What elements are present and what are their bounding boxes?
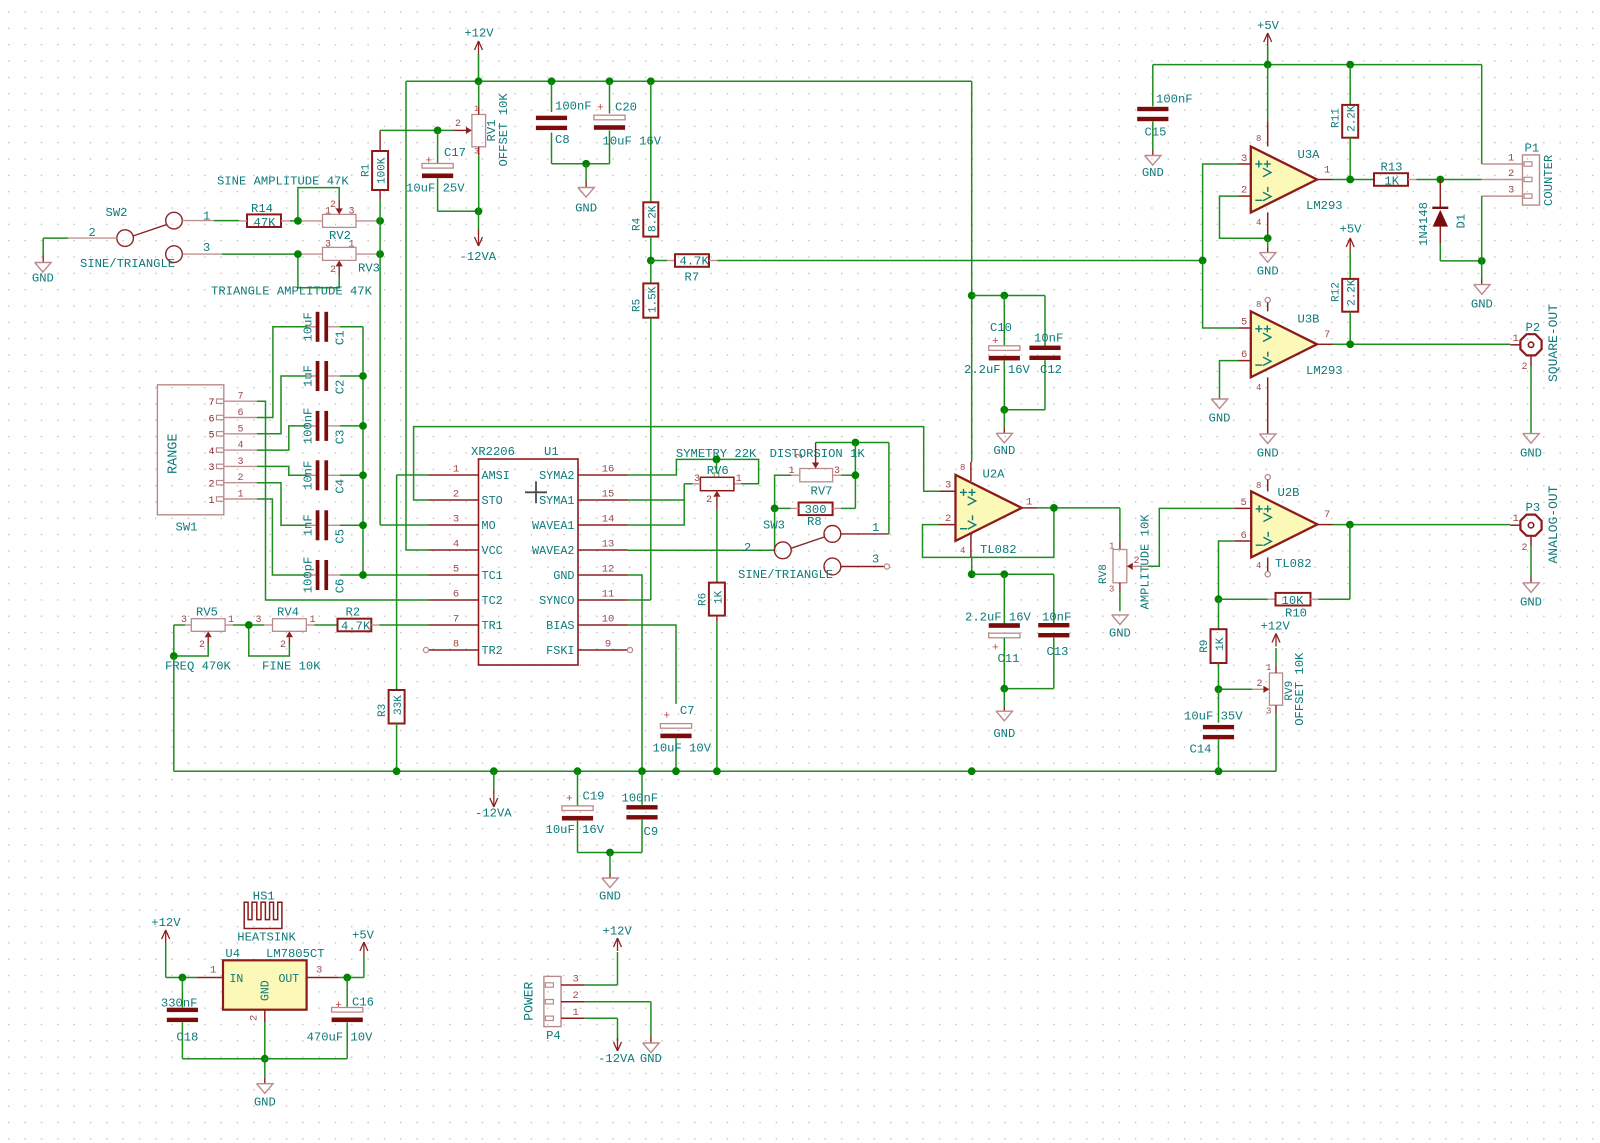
svg-text:11: 11 — [602, 589, 615, 601]
svg-text:330nF: 330nF — [161, 997, 198, 1011]
svg-text:16: 16 — [602, 464, 615, 476]
svg-text:OFFSET 10K: OFFSET 10K — [497, 93, 511, 167]
wire U2B pin6 feedback — [1219, 541, 1252, 599]
op-amp U2A TL082 — [945, 463, 1032, 557]
op-amp U3B LM293 — [1241, 300, 1343, 393]
svg-text:1: 1 — [1109, 542, 1114, 552]
svg-text:C18: C18 — [176, 1031, 198, 1045]
svg-text:RV6: RV6 — [707, 464, 729, 478]
wire U2A V+ pin8 — [970, 296, 973, 482]
svg-text:U1: U1 — [544, 445, 559, 459]
svg-text:DISTORSION 1K: DISTORSION 1K — [770, 447, 866, 461]
svg-text:GND: GND — [640, 1052, 662, 1066]
wire R1 to MO bus — [379, 199, 381, 525]
label TRIANGLE AMPLITUDE 47K — [211, 285, 373, 299]
svg-text:+5V: +5V — [352, 929, 375, 943]
svg-text:10uF 35V: 10uF 35V — [1184, 710, 1243, 724]
svg-text:TL082: TL082 — [980, 543, 1017, 557]
svg-text:7: 7 — [1324, 329, 1330, 341]
svg-text:GND: GND — [1257, 265, 1279, 279]
resistor R6 1K — [697, 583, 725, 772]
capacitor C3 100nF — [302, 408, 364, 445]
svg-text:8: 8 — [453, 639, 459, 651]
svg-text:8: 8 — [1256, 481, 1261, 491]
symbol anchor cross — [525, 481, 547, 503]
capacitor C19 10uF 16V — [546, 771, 611, 852]
svg-text:1: 1 — [1508, 153, 1514, 165]
potentiometer RV4 FINE — [249, 606, 338, 657]
svg-text:+12V: +12V — [1261, 620, 1291, 634]
power +5V at U4 — [352, 929, 375, 978]
junction U3B out/R12 — [1346, 340, 1354, 348]
svg-text:C9: C9 — [644, 825, 659, 839]
svg-text:R2: R2 — [346, 606, 361, 620]
svg-text:STO: STO — [482, 494, 503, 508]
junction U4 in/C18 — [179, 974, 187, 982]
svg-text:3: 3 — [316, 965, 322, 977]
junction -12VA bus — [490, 767, 498, 775]
svg-text:33K: 33K — [393, 695, 405, 715]
junction rail/R4 — [647, 77, 655, 85]
potentiometer RV9 OFFSET 10K — [1219, 648, 1308, 771]
junction rail/C8 — [548, 77, 556, 85]
capacitor C11 2.2uF 16V — [965, 574, 1032, 688]
svg-text:R7: R7 — [685, 271, 700, 285]
svg-text:GND: GND — [1520, 596, 1542, 610]
wire cap bus — [362, 327, 364, 575]
junction R9/R10 — [1215, 595, 1223, 603]
svg-text:GND: GND — [260, 980, 273, 1001]
svg-text:5: 5 — [208, 431, 214, 442]
svg-text:C8: C8 — [555, 133, 570, 147]
svg-text:GND: GND — [1142, 166, 1164, 180]
wire SW1 pin4 to C3 — [257, 426, 316, 450]
wire U2A output — [1022, 507, 1120, 509]
wire P1 pin3 down — [1481, 196, 1483, 261]
junction C10/C12 gnd — [1000, 406, 1008, 414]
wire U3A pin2 to gnd — [1220, 196, 1268, 238]
wire U4 GND pin2 — [264, 1010, 266, 1059]
wire U2B pin5 — [1234, 507, 1251, 509]
svg-text:GND: GND — [1471, 298, 1493, 312]
junction x971 C10 — [968, 292, 976, 300]
wire U3A pin8 — [1267, 65, 1269, 147]
svg-text:R14: R14 — [251, 202, 273, 216]
junction U2B out — [1346, 521, 1354, 529]
wire U3A pin3 — [1203, 164, 1251, 261]
wire WAVEA1 — [628, 484, 685, 525]
junction -12VA bus — [393, 767, 401, 775]
svg-text:5: 5 — [238, 424, 244, 435]
resistor R8 300 — [775, 503, 856, 529]
svg-text:4: 4 — [208, 447, 214, 458]
svg-text:10nF: 10nF — [1042, 611, 1071, 625]
svg-text:2: 2 — [1522, 362, 1528, 373]
svg-text:LM293: LM293 — [1306, 199, 1343, 213]
svg-text:+: + — [664, 711, 671, 723]
svg-text:AMPLITUDE 10K: AMPLITUDE 10K — [1138, 514, 1152, 610]
no-connect U3B pin8 — [1265, 297, 1270, 311]
wire R5 to SYNCO — [628, 318, 651, 600]
svg-text:8: 8 — [1256, 134, 1261, 144]
ground at SW2 — [32, 263, 54, 286]
junction SW2/RV3 — [294, 250, 302, 258]
svg-text:+5V: +5V — [1340, 223, 1363, 237]
svg-text:2: 2 — [945, 513, 951, 525]
wire SW1 pin2 to C5 — [257, 483, 316, 526]
ground C11/C13 — [993, 689, 1015, 741]
svg-text:2.2K: 2.2K — [1347, 279, 1359, 306]
wire RV8 wiper to U2B pin5 — [1148, 508, 1234, 566]
svg-text:GND: GND — [1109, 627, 1131, 641]
svg-text:TR2: TR2 — [482, 644, 503, 658]
svg-text:4: 4 — [453, 539, 459, 551]
svg-text:-12VA: -12VA — [475, 807, 512, 821]
svg-text:SQUARE-OUT: SQUARE-OUT — [1546, 304, 1561, 382]
no-connect U2B pin8 — [1265, 475, 1270, 492]
junction C11/C13 gnd — [1000, 685, 1008, 693]
svg-text:-12VA: -12VA — [598, 1052, 635, 1066]
svg-text:13: 13 — [602, 539, 615, 551]
wire SW1 pin3 to C4 — [257, 466, 316, 475]
wire U2A V- pin4 — [970, 534, 973, 574]
junction +12V/RV1 — [475, 77, 483, 85]
svg-text:3: 3 — [1109, 585, 1114, 595]
wire SW3 pin3 nc — [841, 564, 890, 569]
svg-text:2.2uF 16V: 2.2uF 16V — [964, 363, 1031, 377]
wire +5V rail — [1153, 65, 1482, 164]
junction R8 left — [771, 505, 779, 513]
wire U2A pin2 feedback — [923, 508, 1054, 558]
potentiometer RV3 — [298, 240, 380, 288]
junction R4/R7/R5 — [647, 257, 655, 265]
svg-text:SYNCO: SYNCO — [539, 594, 574, 608]
wire U3B pin4 gnd — [1257, 377, 1279, 460]
capacitor C6 100pF — [302, 557, 429, 594]
resistor R7 4.7K — [651, 254, 718, 284]
wire U4 IN — [197, 977, 223, 979]
svg-text:SINE/TRIANGLE: SINE/TRIANGLE — [738, 568, 833, 582]
svg-text:4.7K: 4.7K — [341, 620, 371, 634]
svg-text:2: 2 — [238, 473, 244, 484]
svg-text:2: 2 — [573, 990, 579, 1002]
ground bottom center — [599, 853, 621, 904]
svg-text:3: 3 — [208, 463, 214, 474]
resistor R9 1K — [1199, 599, 1227, 689]
capacitor C4 10nF — [302, 460, 364, 493]
junction C19/C9 — [606, 849, 614, 857]
svg-text:U3B: U3B — [1298, 313, 1320, 327]
svg-text:7: 7 — [1324, 509, 1330, 521]
op-amp U2B TL082 — [1241, 481, 1331, 571]
svg-text:3: 3 — [1241, 153, 1247, 165]
op-amp U3A LM293 — [1241, 134, 1343, 228]
svg-text:1K: 1K — [713, 590, 725, 604]
svg-text:D1: D1 — [1454, 214, 1468, 229]
svg-text:1: 1 — [203, 210, 210, 224]
ground D1 — [1471, 261, 1493, 312]
svg-text:6: 6 — [453, 589, 459, 601]
junction -12VA bus — [672, 767, 680, 775]
wire U3B pin5 — [1203, 261, 1251, 329]
svg-text:C2: C2 — [334, 380, 348, 395]
wire +12V rail — [406, 80, 972, 82]
svg-text:7: 7 — [238, 392, 244, 403]
resistor R1 100K — [360, 130, 388, 199]
svg-text:GND: GND — [1209, 412, 1231, 426]
svg-text:XR2206: XR2206 — [471, 445, 515, 459]
svg-text:+: + — [597, 103, 604, 115]
junction R9/C14/RV9 — [1215, 685, 1223, 693]
resistor R2 4.7K — [338, 606, 380, 634]
svg-text:RV4: RV4 — [277, 606, 299, 620]
wire P2 pin2 gnd — [1520, 355, 1542, 460]
wire U3A pin4 — [1267, 212, 1269, 238]
wire U4 OUT — [307, 977, 364, 979]
svg-text:3: 3 — [181, 615, 187, 626]
svg-text:2: 2 — [280, 640, 286, 651]
svg-text:SINE/TRIANGLE: SINE/TRIANGLE — [80, 257, 175, 271]
svg-text:SW2: SW2 — [106, 206, 128, 220]
wire C10/C12 top — [972, 295, 1045, 297]
junction RV2 pin3 — [376, 217, 384, 225]
svg-text:14: 14 — [602, 514, 615, 526]
regulator U4 LM7805CT — [210, 947, 325, 1021]
svg-text:5: 5 — [1241, 317, 1247, 329]
junction x971 C11 — [968, 570, 976, 578]
wire U2A pin3 — [939, 490, 955, 492]
junction -12VA bus — [574, 767, 582, 775]
svg-text:4: 4 — [960, 546, 965, 556]
junction C8/C20 gnd — [582, 160, 590, 168]
svg-text:+: + — [566, 794, 573, 806]
junction -12VA bus — [638, 767, 646, 775]
svg-text:+: + — [426, 156, 433, 168]
junction R7/U3A/U3B — [1199, 257, 1207, 265]
svg-text:10uF 16V: 10uF 16V — [546, 823, 605, 837]
resistor R10 10K — [1219, 525, 1350, 621]
capacitor C16 470uF 10V — [265, 978, 374, 1059]
capacitor C10 2.2uF 16V — [964, 296, 1031, 410]
svg-text:1: 1 — [573, 1007, 579, 1019]
wire SYMA2 loop — [628, 459, 759, 483]
svg-text:3: 3 — [256, 615, 262, 626]
svg-text:+5V: +5V — [1257, 19, 1280, 33]
wire SW2 pin2 to GND — [43, 238, 117, 262]
svg-text:WAVEA2: WAVEA2 — [532, 544, 574, 558]
wire P4 pin2 gnd — [585, 1002, 662, 1066]
resistor R5 1.5K — [632, 261, 660, 318]
svg-text:4: 4 — [1256, 218, 1261, 228]
svg-text:2: 2 — [330, 200, 336, 211]
resistor R13 1K — [1374, 161, 1482, 189]
svg-text:R5: R5 — [632, 299, 644, 312]
svg-text:HS1: HS1 — [253, 890, 275, 904]
svg-text:C1: C1 — [334, 330, 348, 345]
svg-text:1: 1 — [238, 490, 244, 501]
label FINE 10K — [262, 660, 321, 674]
svg-text:2: 2 — [199, 640, 205, 651]
wire SW1 pin1 to C6 — [257, 499, 316, 575]
svg-text:1: 1 — [1324, 165, 1330, 177]
svg-text:FREQ 470K: FREQ 470K — [165, 660, 232, 674]
svg-text:10uF 10V: 10uF 10V — [653, 742, 712, 756]
svg-text:5: 5 — [1241, 497, 1247, 509]
svg-text:RV7: RV7 — [811, 485, 833, 499]
svg-text:TRIANGLE AMPLITUDE 47K: TRIANGLE AMPLITUDE 47K — [211, 285, 373, 299]
svg-text:2: 2 — [1257, 679, 1263, 690]
power +12V at RV9 — [1261, 620, 1291, 647]
wire R8 to WAVEA2 — [774, 508, 776, 550]
svg-text:2: 2 — [330, 265, 336, 276]
wire U2B output — [1317, 524, 1510, 526]
no-connect FSKI pin9 — [627, 647, 632, 652]
svg-text:2: 2 — [795, 453, 806, 459]
wire +12V to U2A — [971, 81, 973, 295]
svg-text:SINE AMPLITUDE 47K: SINE AMPLITUDE 47K — [217, 175, 349, 189]
svg-text:OFFSET 10K: OFFSET 10K — [1293, 652, 1307, 726]
svg-text:1: 1 — [349, 240, 355, 251]
svg-text:8: 8 — [1256, 300, 1261, 310]
no-connect U2B pin4 — [1265, 557, 1270, 576]
ground U3A — [1257, 238, 1279, 278]
svg-text:C19: C19 — [583, 790, 605, 804]
svg-text:6: 6 — [238, 408, 244, 419]
junction +5V/R11 — [1346, 61, 1354, 69]
junction -12VA bus — [1215, 767, 1223, 775]
svg-text:C16: C16 — [352, 996, 374, 1010]
wire SYMA1 — [628, 499, 685, 501]
wire SW3 pin1 up — [841, 443, 889, 534]
potentiometer RV7 — [789, 443, 841, 499]
wire -12VA bus — [174, 770, 1276, 772]
svg-text:2.2uF 16V: 2.2uF 16V — [965, 611, 1032, 625]
svg-text:RV3: RV3 — [358, 262, 380, 276]
svg-text:100nF: 100nF — [622, 792, 659, 806]
svg-text:C6: C6 — [334, 579, 348, 594]
capacitor C17 10uF 25V — [406, 130, 479, 211]
svg-text:POWER: POWER — [521, 981, 536, 1020]
capacitor C7 10uF 10V — [653, 704, 712, 771]
svg-text:7: 7 — [453, 614, 459, 626]
junction -12VA bus — [968, 767, 976, 775]
svg-text:100K: 100K — [377, 157, 389, 184]
svg-text:GND: GND — [575, 202, 597, 216]
svg-text:1.5K: 1.5K — [647, 286, 659, 313]
wire SW2 pin3 to RV3 — [183, 253, 298, 255]
svg-text:R12: R12 — [1331, 282, 1343, 302]
ground U4 — [254, 1059, 276, 1110]
svg-text:C4: C4 — [334, 479, 348, 494]
svg-text:COUNTER: COUNTER — [1542, 155, 1556, 206]
svg-text:1: 1 — [1513, 333, 1519, 345]
svg-text:10nF: 10nF — [302, 461, 316, 490]
power -12VA below RV1 — [460, 233, 497, 264]
svg-text:1: 1 — [453, 464, 459, 476]
svg-text:+12V: +12V — [603, 925, 633, 939]
power +5V top — [1257, 19, 1280, 65]
svg-text:3: 3 — [349, 207, 355, 218]
svg-text:GND: GND — [993, 727, 1015, 741]
svg-text:SYMA2: SYMA2 — [539, 469, 574, 483]
wire U3B output — [1317, 343, 1510, 345]
junction U3A gnd — [1264, 234, 1272, 242]
junction C10 top — [1000, 292, 1008, 300]
label SYMETRY 22K — [676, 447, 757, 461]
svg-text:7: 7 — [208, 398, 214, 409]
svg-text:6: 6 — [1241, 530, 1247, 542]
svg-text:C17: C17 — [444, 146, 466, 160]
wire RV6 pin3 — [684, 483, 700, 485]
power -12VA drop — [475, 771, 512, 820]
label DISTORSION 1K — [770, 447, 866, 461]
svg-text:+12V: +12V — [464, 27, 494, 41]
heatsink HS1 — [237, 890, 296, 945]
svg-text:1nF: 1nF — [302, 514, 316, 536]
junction U3A out/R11 — [1346, 176, 1354, 184]
svg-text:100nF: 100nF — [1156, 93, 1193, 107]
svg-text:IN: IN — [230, 973, 244, 986]
svg-text:C15: C15 — [1145, 126, 1167, 140]
svg-text:TC2: TC2 — [482, 594, 503, 608]
resistor R14 47K — [239, 202, 298, 230]
capacitor C13 10nF — [1004, 574, 1071, 688]
connector SW1 RANGE — [157, 385, 257, 535]
no-connect TR2 pin8 — [423, 647, 428, 652]
connector P4 POWER — [521, 974, 585, 1044]
svg-text:3: 3 — [945, 480, 951, 492]
svg-text:2: 2 — [706, 495, 712, 506]
wire RV6 wiper to R6 — [716, 497, 718, 583]
svg-text:C20: C20 — [615, 101, 637, 115]
svg-text:U3A: U3A — [1298, 148, 1321, 162]
svg-text:8.2K: 8.2K — [647, 205, 659, 232]
wire RV7 pin3/R8 — [833, 443, 856, 509]
svg-text:2: 2 — [1508, 168, 1514, 180]
svg-text:U4: U4 — [225, 947, 240, 961]
potentiometer RV6 — [694, 464, 742, 506]
svg-text:2: 2 — [249, 1015, 261, 1021]
svg-text:6: 6 — [1241, 349, 1247, 361]
switch SW3 SINE/TRIANGLE — [738, 519, 879, 583]
svg-text:10uF 16V: 10uF 16V — [603, 135, 662, 149]
junction cap bus — [359, 471, 367, 479]
svg-text:GND: GND — [993, 444, 1015, 458]
svg-text:9: 9 — [605, 639, 611, 651]
wire C11/C13 top — [972, 573, 1054, 575]
junction C11 top — [1000, 570, 1008, 578]
svg-text:6: 6 — [208, 414, 214, 425]
svg-text:2: 2 — [453, 489, 459, 501]
svg-text:2: 2 — [455, 119, 461, 130]
capacitor C15 100nF — [1137, 65, 1192, 156]
svg-text:2: 2 — [1241, 185, 1247, 197]
svg-text:2: 2 — [1522, 543, 1528, 554]
svg-text:RANGE: RANGE — [167, 433, 182, 474]
junction RV3 pin1 — [376, 250, 384, 258]
svg-text:TR1: TR1 — [482, 619, 503, 633]
svg-text:2: 2 — [208, 480, 214, 491]
svg-text:10uF: 10uF — [302, 312, 316, 341]
svg-text:R11: R11 — [1331, 108, 1343, 128]
diode D1 1N4148 — [1417, 180, 1482, 261]
wire RV1 pin3 down — [478, 155, 480, 234]
svg-text:1: 1 — [1266, 663, 1271, 673]
svg-text:C3: C3 — [334, 430, 348, 445]
capacitor C8 100nF — [536, 81, 592, 164]
svg-text:3: 3 — [1508, 185, 1514, 197]
svg-text:100nF: 100nF — [302, 408, 316, 445]
